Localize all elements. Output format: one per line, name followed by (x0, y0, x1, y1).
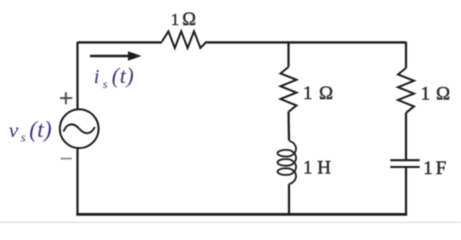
wire: middle branch (R2 to L1) (287, 112, 290, 141)
wire: top rail right segment (R1 to node B/C) (207, 41, 406, 43)
wire: right branch bottom (C1 to bottom rail) (405, 168, 407, 215)
wire: top rail left segment (node A to R1) (78, 41, 163, 43)
wire: right branch (R3 to C1) (405, 113, 407, 159)
svg-text:1H: 1H (303, 157, 331, 178)
svg-text:vs(t): vs(t) (9, 117, 52, 145)
faint horizontal artifact line at page bottom (0, 221, 461, 223)
wire: left branch upper (top rail to V1) (76, 42, 78, 109)
wire: middle branch top (node B junction to R2) (287, 42, 289, 67)
wire: bottom rail (ground return) (76, 213, 407, 216)
svg-text:is(t): is(t) (94, 63, 135, 91)
wire: right branch top (node C corner to R3) (405, 42, 407, 68)
wire: left branch lower (V1 to bottom rail) (76, 148, 78, 215)
resistor R2 (1 ohm, middle branch) (281, 67, 297, 112)
polarity plus sign of source V1 (60, 92, 72, 104)
polarity minus sign of source V1 (61, 158, 72, 160)
inductor L1 (1 H) coil (278, 141, 297, 184)
current arrow i_s(t) (90, 55, 130, 58)
svg-text:1Ω: 1Ω (421, 83, 451, 104)
voltage source V1 circle (60, 109, 99, 148)
resistor R3 (1 ohm, right branch) (398, 68, 414, 113)
wire: middle branch bottom (L1 to bottom rail junction) (288, 184, 290, 215)
svg-text:1Ω: 1Ω (171, 10, 196, 30)
svg-text:1F: 1F (423, 158, 446, 179)
svg-text:1Ω: 1Ω (303, 83, 333, 104)
resistor R1 (1 ohm, top) (162, 31, 207, 48)
voltage source V1 sine symbol (64, 124, 95, 133)
capacitor C1 (1 F) plates (390, 160, 419, 167)
